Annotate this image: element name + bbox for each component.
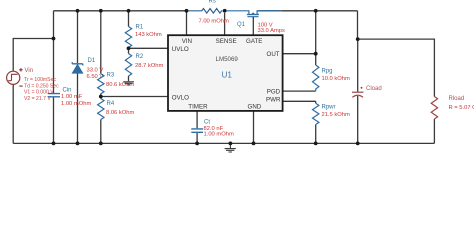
node Cin bottom (52, 142, 56, 146)
node Vin corner junction (52, 37, 56, 41)
node R1 top (127, 9, 131, 13)
wire top-right corner to Rload (358, 11, 435, 97)
wire Rpg top stub (315, 54, 317, 65)
svg-text:Rpg: Rpg (322, 69, 333, 75)
resistor R2 (125, 54, 131, 77)
wire R3 R4 branch (100, 11, 102, 144)
node Cload bottom (356, 142, 360, 146)
ground main (225, 143, 236, 152)
svg-text:1.00 mOhm: 1.00 mOhm (204, 132, 234, 138)
svg-text:LM5069: LM5069 (216, 56, 239, 63)
source Vin polarity marks (19, 68, 22, 87)
resistor R1 (125, 27, 131, 48)
svg-text:6.50 V: 6.50 V (87, 74, 104, 80)
capacitor Ct (191, 129, 203, 132)
wire bottom rail (13, 142, 434, 144)
node ground junction (229, 142, 233, 146)
ground below R2 (123, 82, 134, 85)
svg-text:R2: R2 (136, 54, 144, 60)
diode D1 zener (72, 62, 83, 73)
node SENSE junction (223, 9, 227, 13)
svg-text:PWR: PWR (266, 97, 281, 104)
node Ct bottom (195, 142, 199, 146)
wire D1 branch (77, 11, 79, 144)
svg-text:OVLO: OVLO (172, 95, 189, 102)
node D1 top (76, 9, 80, 13)
svg-text:V2 = 21.7 V: V2 = 21.7 V (24, 96, 51, 102)
svg-text:Cload: Cload (366, 86, 382, 92)
svg-text:10.0 kOhm: 10.0 kOhm (322, 76, 351, 82)
node OUT top (314, 9, 318, 13)
resistor R4 (98, 99, 104, 120)
svg-text:R3: R3 (107, 73, 115, 79)
wire SENSE pin (224, 13, 226, 35)
node R3 top (99, 9, 103, 13)
resistor Rpwr (313, 103, 319, 124)
resistor Rs sense (188, 9, 223, 14)
wire top rail (54, 10, 358, 12)
node UVLO junction (127, 46, 131, 50)
svg-text:GATE: GATE (246, 38, 262, 45)
svg-text:GND: GND (248, 103, 262, 110)
source Vin pulse generator (7, 71, 20, 84)
svg-text:PGD: PGD (267, 88, 281, 95)
wire Vin to top-left corner (13, 11, 53, 71)
node OUT junction (314, 52, 318, 56)
wire GND pin (253, 111, 255, 143)
svg-text:Rload: Rload (449, 96, 465, 102)
node OVLO junction (99, 95, 103, 99)
svg-text:Rpwr: Rpwr (322, 105, 336, 111)
svg-text:Tr = 100mSec: Tr = 100mSec (24, 77, 56, 83)
svg-text:80.6 kOhm: 80.6 kOhm (106, 82, 135, 88)
svg-text:21.5 kOhm: 21.5 kOhm (322, 112, 351, 118)
resistor Rpg (313, 65, 319, 91)
node Rpwr bottom (314, 142, 318, 146)
svg-text:R1: R1 (136, 25, 144, 31)
wire UVLO (129, 47, 169, 49)
resistor Rload (431, 97, 437, 120)
label Cload (361, 87, 363, 89)
svg-text:143 kOhm: 143 kOhm (135, 32, 162, 38)
svg-text:VIN: VIN (182, 38, 192, 45)
svg-text:Ct: Ct (204, 120, 210, 126)
svg-text:Cin: Cin (63, 87, 72, 93)
svg-text:OUT: OUT (267, 51, 280, 58)
node GND bottom (252, 142, 256, 146)
wire PWR (283, 101, 316, 103)
wire VIN pin (186, 11, 188, 35)
svg-text:TIMER: TIMER (188, 103, 208, 110)
svg-text:U1: U1 (222, 71, 233, 80)
wire OVLO (101, 96, 168, 98)
svg-text:Vin: Vin (25, 68, 34, 74)
svg-text:Td = 0.250 Sec: Td = 0.250 Sec (24, 83, 59, 89)
svg-text:D1: D1 (88, 58, 96, 64)
wire Cload branch (357, 39, 359, 143)
svg-text:SENSE: SENSE (216, 38, 237, 45)
svg-text:28.7 kOhm: 28.7 kOhm (135, 63, 164, 69)
capacitor Cload polarized (352, 92, 363, 97)
wire OUT (283, 11, 316, 54)
IC U1 LM5069 body (168, 35, 283, 111)
svg-text:1.00 mF: 1.00 mF (61, 94, 83, 100)
svg-text:7.00 mOhm: 7.00 mOhm (199, 19, 229, 25)
node Cload top (356, 37, 360, 41)
svg-text:V1 = 0.000 V: V1 = 0.000 V (24, 90, 54, 96)
svg-text:Rs: Rs (209, 0, 216, 5)
value Vin parameters (24, 77, 59, 102)
svg-text:33.0 V: 33.0 V (87, 68, 104, 74)
wire Vin bottom lead (12, 84, 14, 143)
node R4 bottom (99, 142, 103, 146)
wire Cin branch (53, 39, 55, 144)
capacitor Cin (48, 94, 60, 97)
node VIN pin junction (185, 9, 189, 13)
transistor Q1 mosfet (227, 11, 282, 18)
svg-text:R4: R4 (107, 101, 115, 107)
wire R1 R2 branch (128, 11, 130, 82)
wire TIMER branch with Ct (196, 111, 198, 143)
wire Rload bottom stub (433, 119, 435, 143)
svg-text:R = 5.07 Ohm: R = 5.07 Ohm (449, 105, 474, 111)
svg-text:33.0 Amps: 33.0 Amps (258, 28, 285, 34)
svg-text:8.06 kOhm: 8.06 kOhm (106, 110, 135, 116)
node D1 bottom (76, 142, 80, 146)
wire Rpwr bottom stub (315, 125, 317, 144)
svg-text:UVLO: UVLO (172, 46, 189, 53)
svg-text:1.00 mOhm: 1.00 mOhm (61, 101, 91, 107)
resistor R3 (98, 74, 104, 94)
svg-text:Q1: Q1 (237, 22, 246, 28)
wire GATE pin (252, 17, 254, 35)
wire PGD (283, 90, 316, 92)
